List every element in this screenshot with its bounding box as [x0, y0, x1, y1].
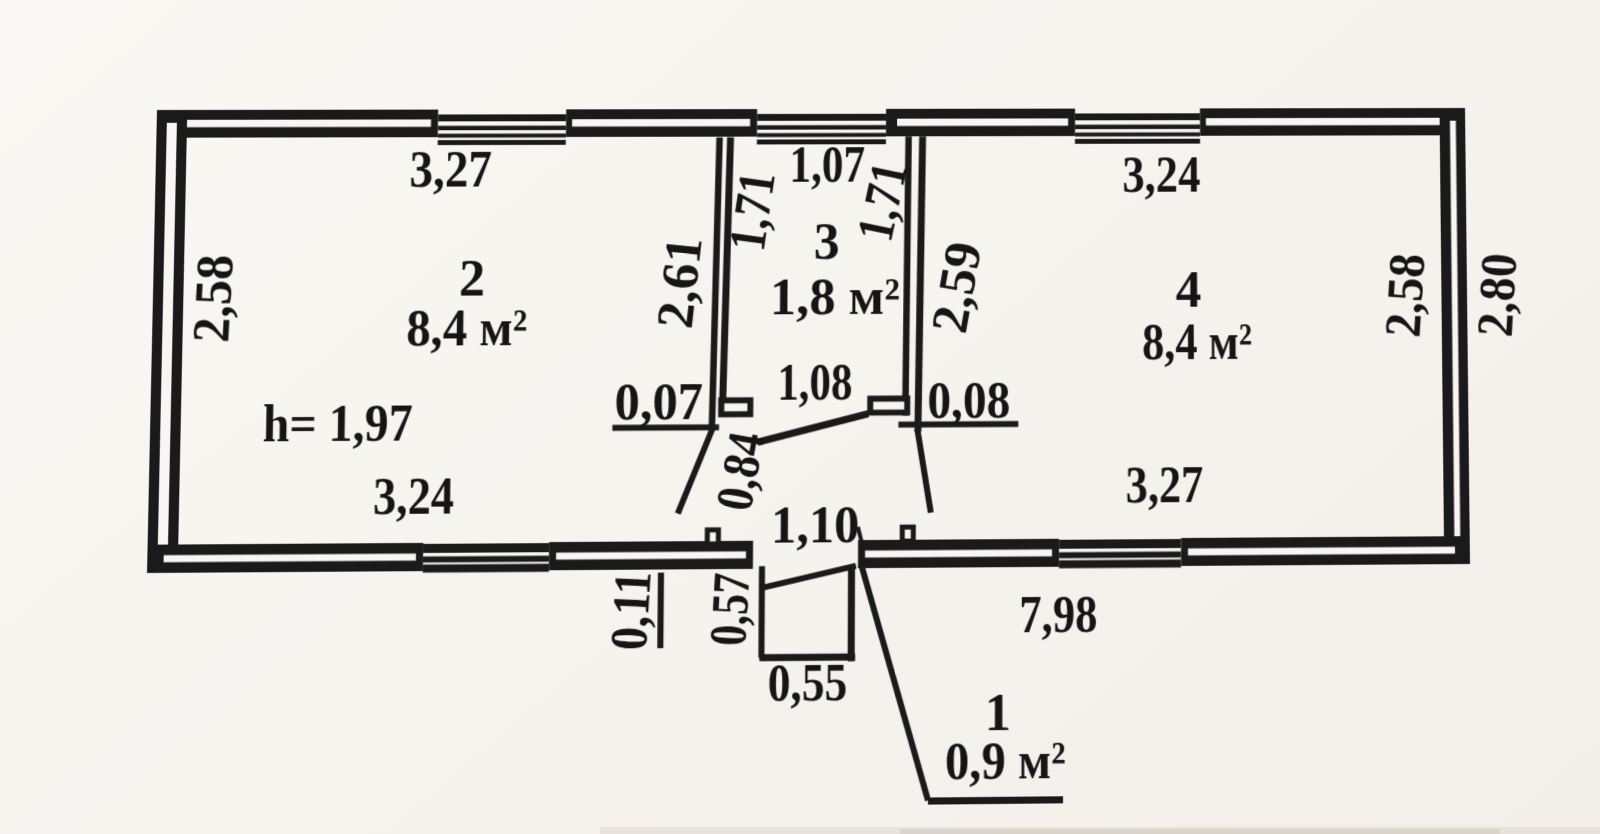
- svg-text:0,08: 0,08: [927, 372, 1010, 429]
- svg-text:0,9 м²: 0,9 м²: [945, 733, 1066, 792]
- svg-text:8,4 м²: 8,4 м²: [1142, 315, 1252, 372]
- door post stub bottom left: [705, 527, 721, 546]
- dimension underline 0,11 (vertical): [657, 573, 664, 649]
- door swing room2: [678, 426, 714, 513]
- svg-text:0,07: 0,07: [614, 374, 703, 431]
- partition wall room3|4 line B: [918, 136, 923, 431]
- svg-text:0,84: 0,84: [706, 428, 777, 514]
- svg-text:2,61: 2,61: [647, 234, 714, 330]
- door jamb stub room3 left: [718, 397, 753, 417]
- underline of 0,9 m2: [928, 796, 1063, 804]
- tick under 1,10: [858, 527, 862, 543]
- wall top segment 4: [1200, 108, 1465, 136]
- porch right edge: [848, 568, 855, 662]
- door jamb stub room3 right: [867, 395, 910, 415]
- porch left edge: [758, 566, 765, 658]
- svg-text:3,27: 3,27: [409, 142, 492, 199]
- window W1 top: [438, 114, 566, 145]
- svg-text:2,80: 2,80: [1467, 252, 1528, 339]
- leader from wall room3|4: [917, 429, 931, 512]
- wall bottom segment 4: [1181, 536, 1470, 566]
- svg-text:0,57: 0,57: [700, 572, 762, 647]
- partition wall room2|3 line A: [712, 137, 720, 427]
- svg-text:3: 3: [814, 214, 840, 270]
- svg-text:8,4 м²: 8,4 м²: [406, 300, 528, 357]
- wall bottom segment 2: [549, 541, 753, 570]
- dimension underline 0,07: [612, 424, 719, 431]
- window W2 top: [757, 114, 886, 145]
- wall top segment 3: [886, 109, 1075, 137]
- wall right: [1440, 108, 1470, 564]
- wall top segment 2: [566, 109, 757, 137]
- window W4 bottom: [423, 543, 549, 573]
- svg-text:0,55: 0,55: [768, 655, 848, 713]
- wall bottom segment 3: [858, 539, 1059, 568]
- svg-text:1,08: 1,08: [777, 355, 852, 412]
- wall bottom segment 1: [147, 543, 423, 573]
- porch bottom edge: [759, 653, 855, 661]
- svg-text:1,71: 1,71: [719, 168, 787, 254]
- svg-text:2,58: 2,58: [182, 254, 245, 343]
- dimension underline 0,08: [898, 421, 1018, 428]
- svg-text:3,27: 3,27: [1126, 457, 1204, 514]
- window W5 bottom: [1059, 539, 1181, 568]
- wall left: [147, 110, 187, 573]
- svg-text:1,07: 1,07: [789, 138, 865, 194]
- svg-text:2: 2: [459, 251, 486, 308]
- door leaf room3: [757, 414, 868, 442]
- svg-text:4: 4: [1176, 262, 1202, 318]
- svg-text:h= 1,97: h= 1,97: [262, 396, 413, 454]
- door post stub bottom right: [900, 525, 916, 544]
- svg-text:1,8 м²: 1,8 м²: [770, 269, 900, 326]
- svg-text:0,11: 0,11: [600, 570, 663, 651]
- partition wall room3|4 line A: [905, 137, 908, 416]
- wall top segment 1: [156, 110, 438, 138]
- scan edge shadow bottom: [600, 827, 1600, 834]
- svg-text:2,59: 2,59: [921, 238, 993, 337]
- partition wall room2|3 line B: [723, 137, 731, 399]
- leader line to room1 label: [860, 563, 929, 801]
- svg-text:3,24: 3,24: [1122, 147, 1200, 203]
- svg-text:1,10: 1,10: [771, 497, 860, 555]
- entrance door leaf: [760, 566, 856, 588]
- svg-text:7,98: 7,98: [1019, 586, 1097, 644]
- window W3 top: [1075, 113, 1200, 144]
- svg-text:3,24: 3,24: [373, 468, 455, 526]
- svg-text:2,58: 2,58: [1375, 252, 1436, 339]
